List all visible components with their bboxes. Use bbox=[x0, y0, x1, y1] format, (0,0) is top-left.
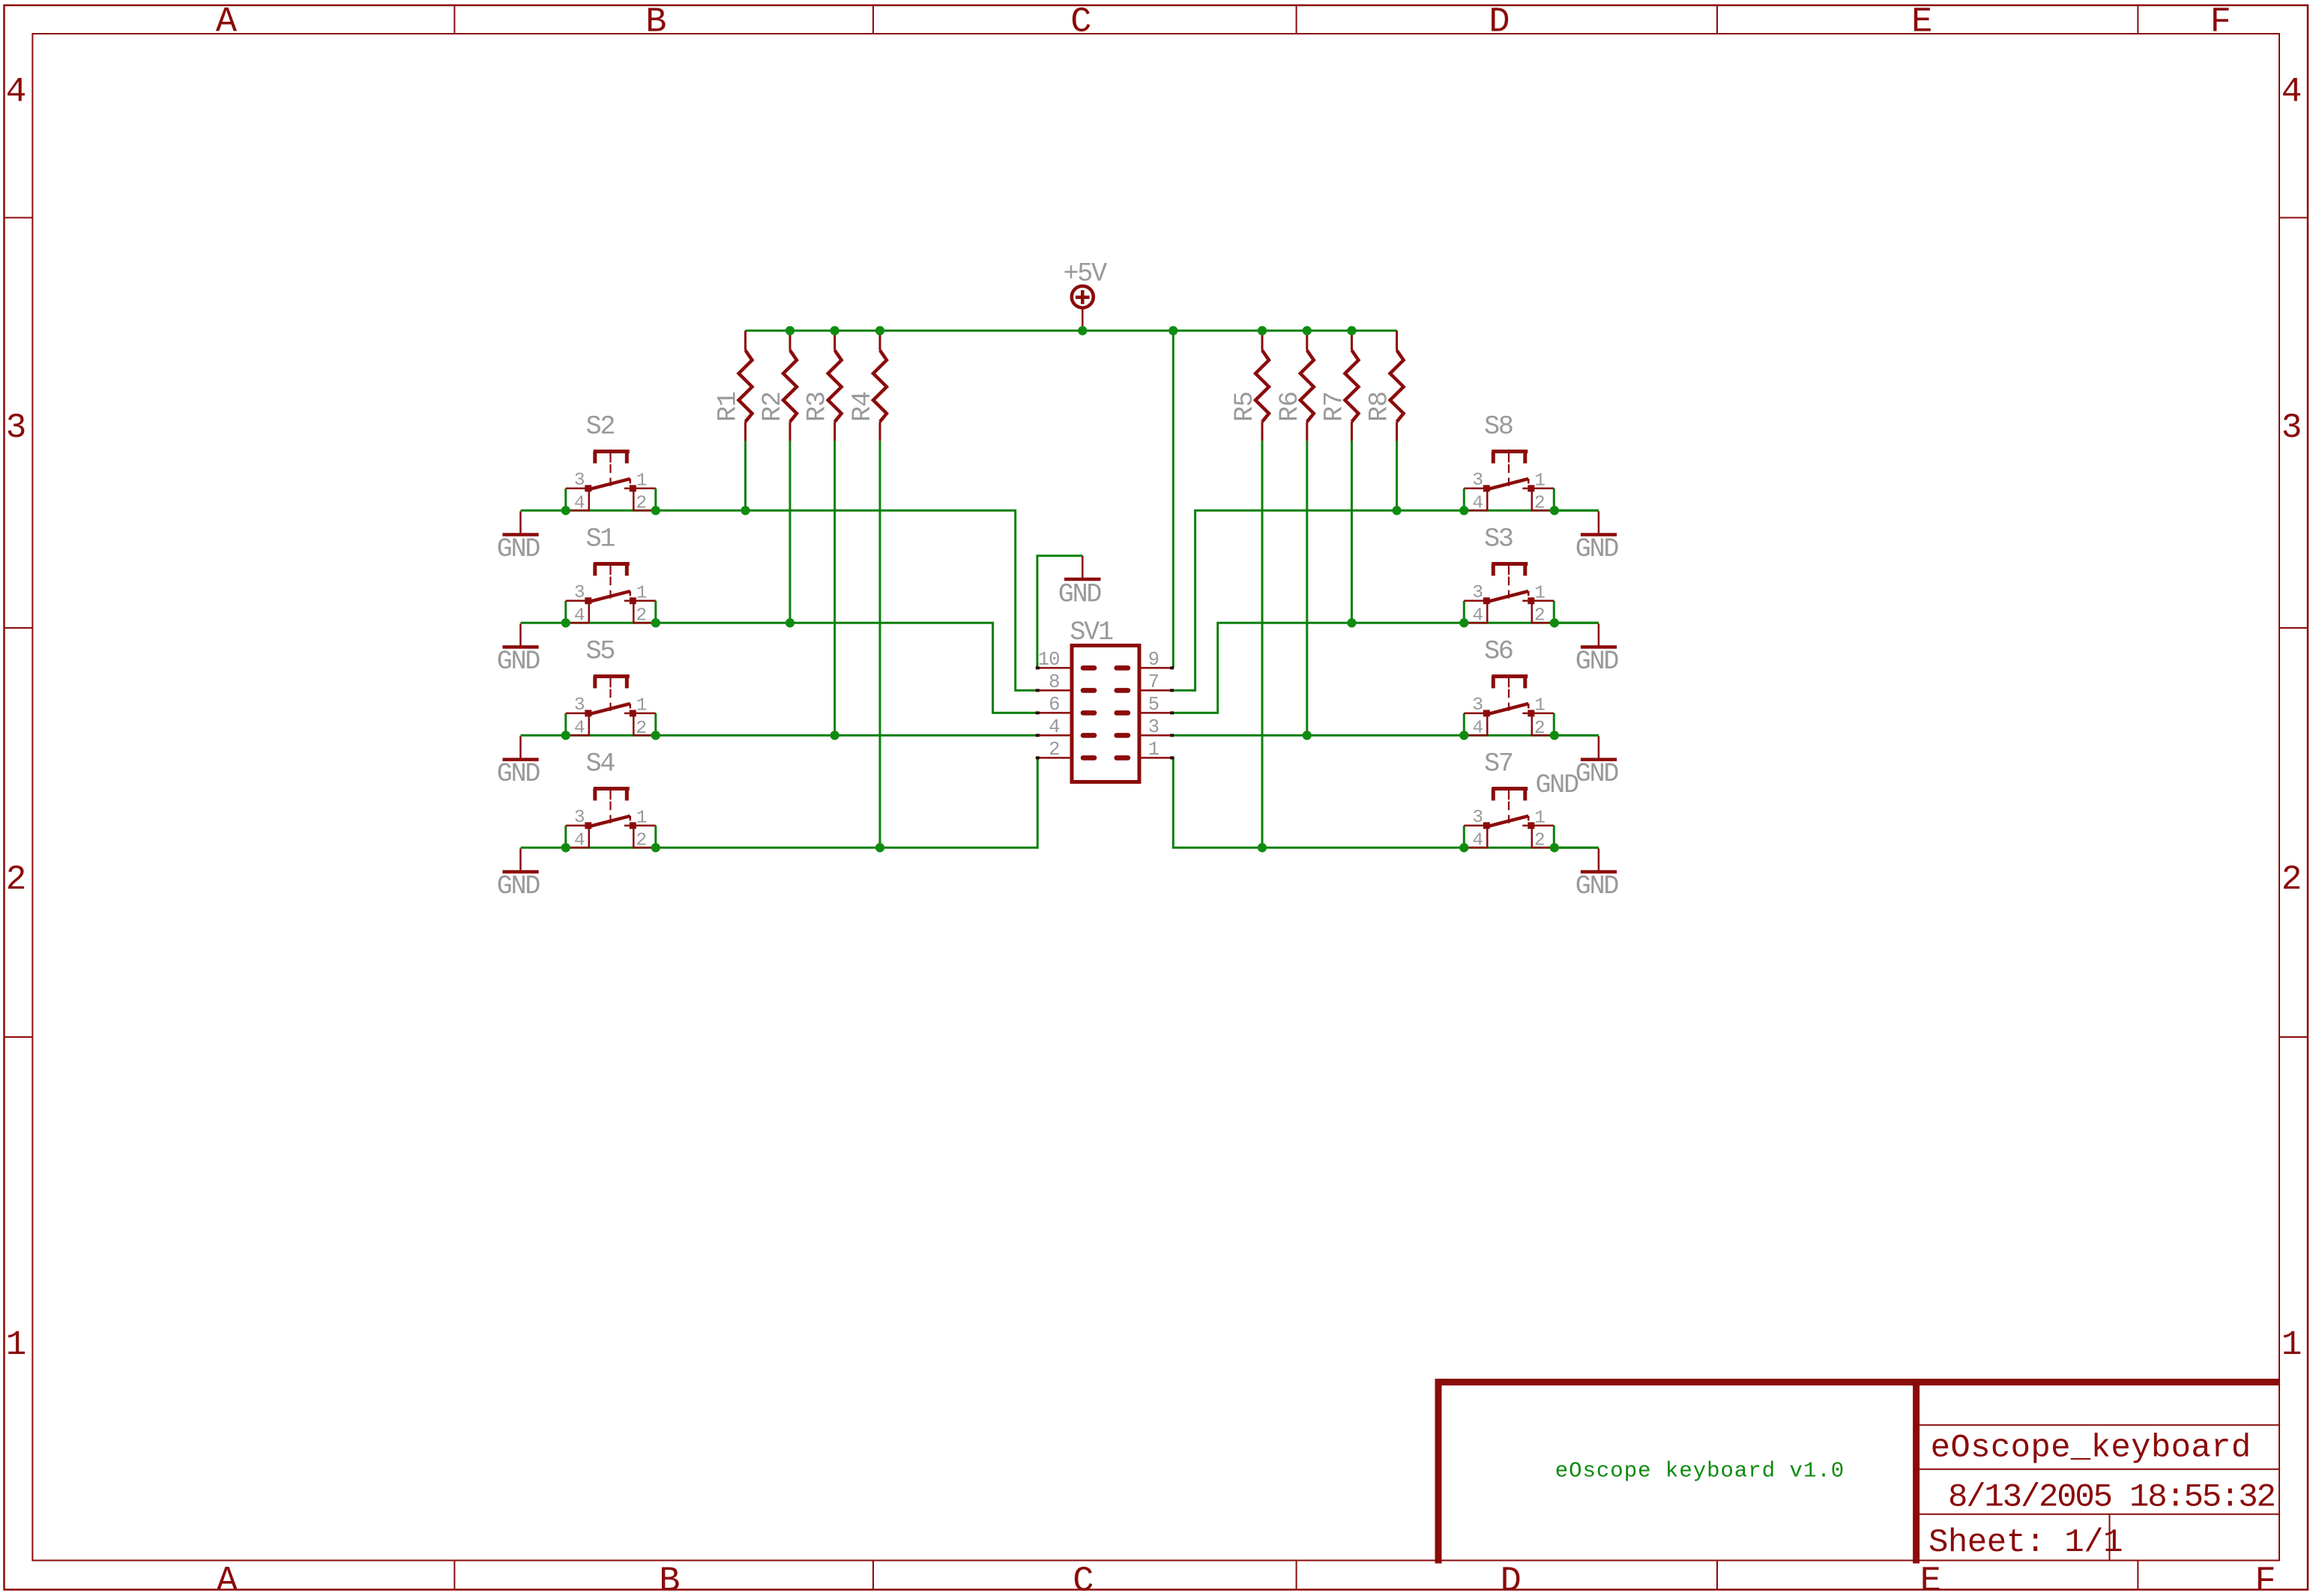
svg-text:3: 3 bbox=[1472, 808, 1483, 828]
svg-text:E: E bbox=[1911, 2, 1932, 42]
frame column tick top bbox=[2137, 5, 2138, 34]
svg-text:4: 4 bbox=[1472, 831, 1483, 851]
junction at left switch pin bbox=[561, 618, 570, 627]
wire R4 bottom to row bbox=[879, 441, 881, 847]
SV1 pin 9 bbox=[1139, 667, 1172, 669]
svg-text:9: 9 bbox=[1148, 649, 1159, 671]
frame row tick right bbox=[2279, 627, 2308, 629]
svg-text:3: 3 bbox=[574, 695, 585, 716]
svg-text:2: 2 bbox=[2282, 860, 2303, 899]
frame column tick top bbox=[1716, 5, 1718, 34]
svg-text:6: 6 bbox=[1049, 694, 1059, 716]
svg-text:SV1: SV1 bbox=[1070, 617, 1113, 647]
svg-text:F: F bbox=[2255, 1562, 2276, 1596]
pushbutton switch S7 bbox=[1463, 826, 1465, 848]
resistor R5 bbox=[1261, 330, 1264, 350]
svg-text:S2: S2 bbox=[586, 412, 615, 442]
svg-text:R4: R4 bbox=[848, 392, 878, 422]
junction on +5V bus bbox=[1258, 326, 1267, 335]
junction at right switch pin bbox=[1550, 731, 1559, 740]
svg-text:S7: S7 bbox=[1484, 749, 1513, 779]
wire R3 bottom to row bbox=[833, 441, 836, 735]
wire SV1 pin 3 to S6 row bbox=[1172, 734, 1599, 737]
frame column tick top bbox=[453, 5, 455, 34]
frame column tick top bbox=[1296, 5, 1297, 34]
svg-text:1: 1 bbox=[1534, 808, 1545, 828]
ground GND at S1 pin4 bbox=[519, 623, 522, 647]
frame row tick left bbox=[4, 1036, 33, 1038]
wire R1 bottom to row bbox=[744, 441, 747, 510]
pushbutton switch S5 bbox=[564, 713, 567, 736]
svg-text:S5: S5 bbox=[586, 637, 615, 667]
svg-text:1: 1 bbox=[636, 583, 647, 603]
frame column tick top bbox=[872, 5, 874, 34]
svg-text:R1: R1 bbox=[714, 392, 744, 422]
svg-text:3: 3 bbox=[6, 408, 27, 447]
frame column tick bottom bbox=[1716, 1561, 1718, 1590]
junction resistor to row bbox=[1392, 506, 1401, 515]
svg-text:GND: GND bbox=[1575, 759, 1619, 789]
title block field line 2 bbox=[1917, 1469, 2279, 1470]
junction resistor to row bbox=[1303, 731, 1312, 740]
svg-text:S1: S1 bbox=[586, 525, 615, 554]
frame column tick bottom bbox=[872, 1561, 874, 1590]
resistor R2 bbox=[789, 330, 791, 350]
svg-text:E: E bbox=[1920, 1562, 1941, 1596]
svg-text:2: 2 bbox=[636, 494, 646, 514]
svg-text:4: 4 bbox=[1472, 606, 1483, 626]
svg-text:C: C bbox=[1070, 2, 1091, 42]
svg-text:D: D bbox=[1489, 2, 1510, 42]
ground GND at SV1 pin 10 bbox=[1082, 556, 1084, 578]
junction at right switch pin bbox=[1550, 506, 1559, 515]
wire SV1 pin 10 to GND bbox=[1037, 556, 1082, 668]
junction resistor to row bbox=[1347, 618, 1356, 627]
SV1 pin 3 bbox=[1139, 734, 1172, 737]
SV1 pin 10 bbox=[1037, 667, 1072, 669]
svg-text:5: 5 bbox=[1148, 694, 1159, 716]
wire R2 bottom to row bbox=[789, 441, 791, 623]
svg-text:+5V: +5V bbox=[1064, 259, 1108, 289]
SV1 pin 2 bbox=[1037, 757, 1072, 759]
wire +5V bus to SV1 pin 9 bbox=[1172, 330, 1174, 668]
svg-text:A: A bbox=[216, 2, 238, 42]
svg-text:3: 3 bbox=[1148, 716, 1159, 738]
svg-text:Sheet: 1/1: Sheet: 1/1 bbox=[1929, 1524, 2123, 1562]
wire +5V bus horizontal bbox=[746, 330, 1397, 332]
frame row tick left bbox=[4, 627, 33, 629]
svg-text:S6: S6 bbox=[1484, 637, 1513, 667]
svg-text:GND: GND bbox=[1575, 534, 1619, 564]
svg-text:F: F bbox=[2210, 2, 2231, 42]
wire S2 row to SV1 pin 8 bbox=[521, 510, 1038, 690]
svg-text:1: 1 bbox=[2282, 1326, 2303, 1364]
junction resistor to row bbox=[785, 618, 794, 627]
svg-text:2: 2 bbox=[636, 606, 646, 626]
wire S5 row to SV1 pin 4 bbox=[521, 734, 1038, 737]
svg-text:4: 4 bbox=[1472, 494, 1483, 514]
svg-text:GND: GND bbox=[497, 534, 540, 564]
junction resistor to row bbox=[1258, 843, 1267, 852]
svg-text:10: 10 bbox=[1038, 649, 1060, 671]
junction at right switch pin bbox=[1459, 506, 1468, 515]
svg-text:GND: GND bbox=[1058, 580, 1102, 610]
resistor R7 bbox=[1351, 330, 1353, 350]
svg-text:R2: R2 bbox=[758, 392, 788, 422]
frame row tick right bbox=[2279, 1036, 2308, 1038]
svg-text:2: 2 bbox=[1534, 606, 1545, 626]
svg-text:eOscope_keyboard: eOscope_keyboard bbox=[1931, 1429, 2252, 1466]
junction on +5V bus bbox=[830, 326, 839, 335]
title block field line 3 bbox=[1917, 1514, 2279, 1515]
junction resistor to row bbox=[875, 843, 884, 852]
svg-text:7: 7 bbox=[1148, 671, 1159, 693]
junction on +5V bus bbox=[1347, 326, 1356, 335]
ground GND at S6 pin2 bbox=[1554, 734, 1599, 737]
ground GND at S7 pin2 bbox=[1554, 847, 1599, 849]
svg-text:2: 2 bbox=[6, 860, 27, 899]
junction on +5V bus bbox=[785, 326, 794, 335]
svg-text:GND: GND bbox=[1575, 871, 1619, 901]
frame column tick bottom bbox=[1296, 1561, 1297, 1590]
svg-text:1: 1 bbox=[1148, 739, 1159, 761]
wire R7 bottom to row bbox=[1351, 441, 1353, 623]
junction at left switch pin bbox=[651, 618, 660, 627]
connector SV1 bbox=[1072, 646, 1139, 782]
svg-text:4: 4 bbox=[6, 73, 27, 112]
title block field line 1 bbox=[1917, 1424, 2279, 1426]
ground GND at S4 pin4 bbox=[519, 848, 522, 871]
svg-text:4: 4 bbox=[574, 831, 585, 851]
svg-text:4: 4 bbox=[574, 494, 585, 514]
junction resistor to row bbox=[830, 731, 839, 740]
svg-text:8/13/2005 18:55:32: 8/13/2005 18:55:32 bbox=[1948, 1479, 2275, 1517]
svg-text:4: 4 bbox=[1472, 719, 1483, 739]
title block outline bbox=[1438, 1382, 2279, 1564]
pushbutton switch S1 bbox=[564, 601, 567, 623]
pushbutton switch S3 bbox=[1463, 601, 1465, 623]
svg-text:A: A bbox=[217, 1562, 238, 1596]
frame row tick left bbox=[4, 217, 33, 219]
junction at left switch pin bbox=[561, 843, 570, 852]
ground GND at S8 pin2 bbox=[1554, 510, 1599, 512]
resistor R3 bbox=[833, 330, 836, 350]
svg-text:S8: S8 bbox=[1484, 412, 1513, 442]
svg-text:4: 4 bbox=[1049, 716, 1059, 738]
SV1 pin 4 bbox=[1037, 734, 1072, 737]
svg-text:4: 4 bbox=[2282, 73, 2303, 112]
svg-text:2: 2 bbox=[636, 831, 646, 851]
pushbutton switch S6 bbox=[1463, 713, 1465, 736]
svg-text:GND: GND bbox=[1535, 770, 1578, 800]
svg-text:eOscope keyboard v1.0: eOscope keyboard v1.0 bbox=[1555, 1459, 1845, 1484]
junction resistor to row bbox=[741, 506, 750, 515]
svg-text:B: B bbox=[645, 2, 666, 42]
svg-text:C: C bbox=[1073, 1562, 1094, 1596]
supply symbol +5V bbox=[1072, 286, 1094, 308]
wire S4 row to SV1 pin 2 bbox=[521, 758, 1038, 847]
svg-text:1: 1 bbox=[1534, 583, 1545, 603]
junction on +5V bus bbox=[875, 326, 884, 335]
SV1 pin 8 bbox=[1037, 689, 1072, 692]
resistor R8 bbox=[1396, 330, 1398, 350]
junction at left switch pin bbox=[651, 843, 660, 852]
svg-text:B: B bbox=[659, 1562, 680, 1596]
svg-text:3: 3 bbox=[2282, 408, 2303, 447]
svg-text:1: 1 bbox=[636, 696, 647, 716]
svg-text:R3: R3 bbox=[803, 392, 833, 422]
svg-text:R6: R6 bbox=[1275, 392, 1305, 422]
svg-text:1: 1 bbox=[6, 1326, 27, 1364]
svg-text:S3: S3 bbox=[1484, 525, 1513, 554]
svg-text:GND: GND bbox=[1575, 647, 1619, 677]
SV1 pin 6 bbox=[1037, 712, 1072, 714]
wire R6 bottom to row bbox=[1306, 441, 1308, 735]
svg-text:R5: R5 bbox=[1230, 392, 1260, 422]
svg-text:R7: R7 bbox=[1320, 392, 1350, 422]
pushbutton switch S4 bbox=[564, 826, 567, 848]
svg-text:3: 3 bbox=[1472, 695, 1483, 716]
pushbutton switch S8 bbox=[1463, 489, 1465, 511]
junction at left switch pin bbox=[561, 506, 570, 515]
frame column tick bottom bbox=[453, 1561, 455, 1590]
svg-text:4: 4 bbox=[574, 606, 585, 626]
svg-text:1: 1 bbox=[1534, 471, 1545, 491]
svg-text:2: 2 bbox=[1049, 739, 1059, 761]
junction at right switch pin bbox=[1550, 843, 1559, 852]
svg-text:GND: GND bbox=[497, 871, 540, 901]
svg-text:GND: GND bbox=[497, 759, 540, 789]
junction at right switch pin bbox=[1459, 843, 1468, 852]
wire SV1 pin 1 to S7 row bbox=[1172, 758, 1599, 847]
junction at right switch pin bbox=[1459, 618, 1468, 627]
svg-text:1: 1 bbox=[636, 471, 647, 491]
svg-text:3: 3 bbox=[574, 471, 585, 491]
resistor R1 bbox=[744, 330, 747, 350]
svg-text:2: 2 bbox=[1534, 831, 1545, 851]
wire R8 bottom to row bbox=[1396, 441, 1398, 510]
resistor R4 bbox=[879, 330, 881, 350]
svg-text:2: 2 bbox=[636, 719, 646, 739]
svg-text:1: 1 bbox=[636, 808, 647, 828]
wire R5 bottom to row bbox=[1261, 441, 1264, 847]
SV1 pin 1 bbox=[1139, 757, 1172, 759]
svg-text:2: 2 bbox=[1534, 494, 1545, 514]
junction at left switch pin bbox=[561, 731, 570, 740]
svg-text:8: 8 bbox=[1049, 671, 1059, 693]
svg-text:4: 4 bbox=[574, 719, 585, 739]
SV1 pin 7 bbox=[1139, 689, 1172, 692]
SV1 pin 5 bbox=[1139, 712, 1172, 714]
ground GND at S5 pin4 bbox=[519, 736, 522, 759]
frame column tick bottom bbox=[2137, 1561, 2138, 1590]
svg-text:D: D bbox=[1501, 1562, 1522, 1596]
ground GND at S3 pin2 bbox=[1554, 622, 1599, 624]
resistor R6 bbox=[1306, 330, 1308, 350]
title block sheet sub-divider bbox=[2109, 1514, 2111, 1560]
wire SV1 pin 7 to S8 row bbox=[1172, 510, 1599, 690]
wire SV1 pin 5 to S3 row bbox=[1172, 623, 1599, 713]
svg-text:3: 3 bbox=[574, 808, 585, 828]
svg-text:1: 1 bbox=[1534, 696, 1545, 716]
svg-text:3: 3 bbox=[1472, 583, 1483, 603]
svg-text:2: 2 bbox=[1534, 719, 1545, 739]
wire S1 row to SV1 pin 6 bbox=[521, 623, 1038, 713]
junction on +5V bus bbox=[1078, 326, 1087, 335]
junction at left switch pin bbox=[651, 506, 660, 515]
svg-text:3: 3 bbox=[574, 583, 585, 603]
svg-text:GND: GND bbox=[497, 647, 540, 677]
svg-text:3: 3 bbox=[1472, 471, 1483, 491]
junction at right switch pin bbox=[1550, 618, 1559, 627]
frame row tick right bbox=[2279, 217, 2308, 219]
svg-text:S4: S4 bbox=[586, 749, 615, 779]
ground GND at S2 pin4 bbox=[519, 511, 522, 534]
junction on +5V bus bbox=[1303, 326, 1312, 335]
svg-text:R8: R8 bbox=[1365, 392, 1395, 422]
title block divider bbox=[1913, 1382, 1920, 1564]
junction at left switch pin bbox=[651, 731, 660, 740]
pushbutton switch S2 bbox=[564, 489, 567, 511]
junction at right switch pin bbox=[1459, 731, 1468, 740]
junction on +5V bus bbox=[1168, 326, 1177, 335]
